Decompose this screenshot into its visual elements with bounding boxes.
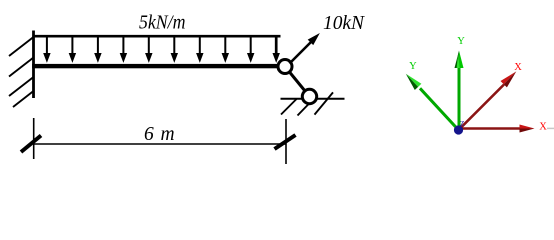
axis Y diagonal cone	[406, 74, 422, 90]
svg-text:m: m	[161, 124, 175, 145]
axis X diagonal shaft	[459, 85, 505, 131]
ground hatch b	[298, 99, 314, 116]
load arrow 6	[171, 36, 177, 62]
beam	[32, 64, 277, 68]
axis X horizontal faint extension	[547, 127, 554, 129]
wall hatch 2	[9, 58, 34, 77]
svg-text:5kN/m: 5kN/m	[139, 12, 186, 34]
wall hatch 4	[13, 91, 34, 107]
load arrow 7	[197, 36, 203, 62]
load arrow 2	[69, 36, 75, 62]
dimension extension line right	[285, 119, 287, 164]
dimension extension line left	[33, 118, 35, 159]
svg-text:Y: Y	[457, 36, 465, 47]
force arrow 10kN	[290, 34, 319, 63]
wall hatch 1	[9, 37, 34, 56]
axis Y vertical cone	[455, 51, 464, 69]
svg-text:Y: Y	[409, 61, 417, 72]
axis X horizontal shaft	[459, 127, 521, 130]
ground line of roller support	[281, 98, 345, 100]
dimension tick left	[21, 136, 41, 153]
axis Y vertical shaft	[458, 66, 461, 130]
svg-text:X: X	[539, 122, 547, 133]
svg-text:6: 6	[144, 124, 154, 145]
ground hatch c	[315, 92, 334, 114]
load arrow 3	[95, 36, 101, 62]
link member	[285, 67, 310, 97]
dimension tick right	[275, 135, 296, 149]
load arrow 8	[222, 36, 228, 62]
hinge circle at beam end	[278, 60, 292, 74]
load arrow 4	[120, 36, 126, 62]
dimension line	[34, 143, 286, 145]
load arrow 1	[44, 36, 50, 62]
wall hatch 3	[9, 77, 34, 96]
ground hatch a	[281, 99, 297, 115]
distributed load line	[34, 35, 281, 38]
axis X diagonal cone	[501, 71, 517, 87]
fixed support wall line	[32, 31, 35, 99]
load arrow 5	[146, 36, 152, 62]
load arrow 10	[273, 36, 279, 62]
axes origin dot	[454, 125, 463, 134]
axis Y diagonal shaft	[420, 88, 459, 130]
roller circle	[302, 89, 316, 103]
load arrow 9	[248, 36, 254, 62]
svg-text:10kN: 10kN	[323, 12, 365, 34]
axis X horizontal cone	[520, 125, 535, 133]
svg-text:X: X	[514, 62, 522, 73]
